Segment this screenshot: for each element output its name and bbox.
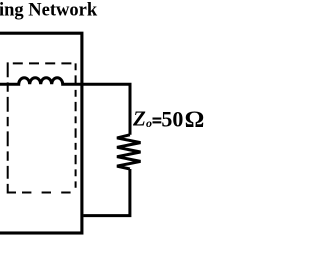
resistor Zo (117, 135, 141, 169)
wire with inductor L (4 humps) then corner down to resistor (0, 78, 130, 135)
svg-text:Z: Z (132, 106, 146, 130)
dashed box: right edge (75, 63, 77, 187)
dashed box: left edge (7, 62, 9, 178)
dashed box: top edge (13, 62, 76, 64)
svg-text:50: 50 (161, 106, 183, 131)
label: ohm symbol (185, 108, 205, 133)
svg-text:ing Network: ing Network (0, 0, 98, 20)
svg-text:o: o (146, 116, 152, 130)
matching-network box (solid, left edge off-canvas) (0, 33, 82, 233)
dashed box: bottom-left corner piece (8, 184, 16, 193)
wire: resistor bottom to box (83, 169, 129, 216)
label: = (drawn bars) (153, 118, 162, 120)
svg-text:Ω: Ω (185, 108, 205, 133)
dashed box: bottom edge (22, 192, 71, 194)
